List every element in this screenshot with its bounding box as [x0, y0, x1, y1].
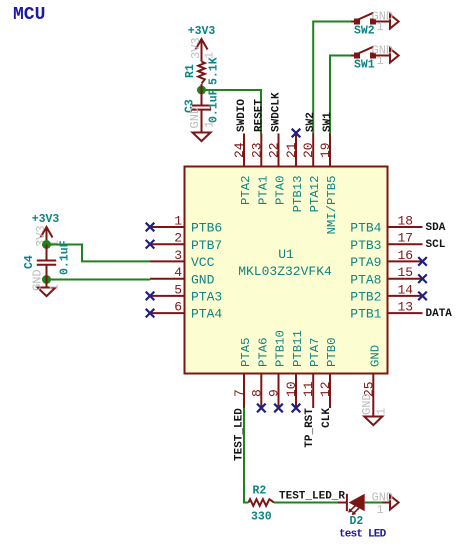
U1 pin 25 (GND): [361, 345, 382, 417]
svg-text:PTB7: PTB7: [191, 238, 222, 253]
svg-text:CLK: CLK: [321, 408, 333, 428]
capacitor C4 0.1uF: [23, 240, 72, 275]
svg-text:PTB3: PTB3: [350, 238, 381, 253]
svg-text:6: 6: [174, 300, 182, 315]
svg-text:SWDIO: SWDIO: [236, 99, 248, 132]
svg-text:PTA9: PTA9: [350, 255, 381, 270]
U1 pin 20 (PTA12): [301, 134, 322, 213]
svg-text:GND: GND: [368, 345, 382, 367]
wire R1 to C3: [201, 84, 203, 105]
svg-text:PTB10: PTB10: [274, 330, 288, 367]
svg-text:SW1: SW1: [322, 112, 334, 132]
svg-text:8: 8: [249, 389, 264, 397]
U1 pin 17 (PTB3): [350, 231, 422, 253]
svg-text:U1: U1: [278, 247, 294, 262]
svg-text:21: 21: [284, 142, 299, 158]
svg-text:13: 13: [398, 300, 414, 315]
ground below C3: [188, 107, 216, 141]
svg-text:11: 11: [301, 381, 316, 397]
svg-text:PTA3: PTA3: [191, 290, 222, 305]
ground at SW2: [372, 9, 399, 34]
capacitor C3 0.1uF: [184, 88, 221, 123]
svg-text:+3V3: +3V3: [188, 25, 216, 38]
U1 pin 12 (PTB0): [318, 337, 339, 408]
U1 pin 3 (VCC): [150, 248, 215, 270]
svg-text:GND: GND: [31, 269, 45, 291]
svg-text:R2: R2: [253, 485, 267, 498]
wire C4 to ground: [46, 265, 48, 288]
wire TEST_LED_R net: [274, 502, 338, 504]
svg-text:PTA4: PTA4: [191, 307, 222, 322]
U1 pin 14 (PTB2): [350, 282, 427, 304]
svg-text:DATA: DATA: [426, 308, 453, 320]
ground below C4: [31, 269, 62, 296]
svg-text:14: 14: [398, 282, 414, 297]
resistor R2 330: [249, 485, 275, 524]
wire LED to ground: [365, 502, 383, 504]
svg-text:PTB1: PTB1: [350, 307, 381, 322]
U1 pin 16 (PTA9): [350, 248, 427, 270]
wire SW2 net stub: [351, 21, 355, 23]
wire GND node to GND pin 4: [47, 279, 151, 281]
ground at SW1: [372, 43, 399, 68]
svg-text:1: 1: [374, 408, 388, 415]
wire C3 to ground: [201, 110, 203, 133]
svg-text:C4: C4: [23, 255, 36, 269]
svg-text:VCC: VCC: [191, 255, 215, 270]
U1 pin 4 (GND): [150, 265, 215, 287]
svg-text:GND: GND: [191, 272, 215, 287]
svg-text:GND: GND: [360, 393, 374, 415]
svg-text:17: 17: [398, 231, 414, 246]
svg-text:22: 22: [267, 142, 282, 158]
svg-text:SWDCLK: SWDCLK: [271, 92, 283, 132]
svg-text:RESET: RESET: [253, 99, 265, 132]
wire SW2 net from pin 20: [313, 22, 351, 134]
svg-text:TEST_LED_R: TEST_LED_R: [279, 491, 345, 503]
svg-text:9: 9: [267, 389, 282, 397]
junction RESET node: [197, 86, 206, 95]
U1 pin 18 (PTB4): [350, 214, 422, 236]
svg-text:PTA8: PTA8: [350, 272, 381, 287]
svg-text:1: 1: [174, 214, 182, 229]
resistor R1 5.1K: [184, 57, 221, 85]
ground at pin 25: [360, 393, 388, 425]
U1 pin 9 (PTB10): [267, 330, 288, 412]
svg-text:NMI/PTB5: NMI/PTB5: [325, 176, 339, 235]
svg-text:GND: GND: [188, 107, 202, 129]
svg-text:23: 23: [249, 142, 264, 158]
svg-text:1: 1: [377, 503, 384, 517]
svg-text:PTB13: PTB13: [291, 176, 305, 213]
op IC body U1: [185, 167, 388, 374]
svg-text:19: 19: [318, 142, 333, 158]
svg-text:20: 20: [301, 142, 316, 158]
svg-text:4: 4: [174, 265, 182, 280]
LED D2: [338, 494, 365, 528]
switch SW1: [354, 47, 376, 72]
svg-text:12: 12: [318, 381, 333, 397]
svg-text:SDA: SDA: [426, 222, 446, 234]
svg-text:PTA1: PTA1: [256, 176, 270, 206]
svg-text:SW2: SW2: [305, 112, 317, 132]
svg-text:test LED: test LED: [339, 529, 387, 541]
U1 pin 11 (PTA7): [301, 337, 322, 408]
svg-text:3V3: 3V3: [189, 37, 203, 59]
svg-text:PTB4: PTB4: [350, 221, 381, 236]
svg-text:1: 1: [48, 284, 62, 291]
U1 pin 21 (PTB13): [284, 129, 305, 213]
svg-text:SW2: SW2: [354, 24, 375, 37]
svg-text:7: 7: [232, 389, 247, 397]
power +3V3 (C4 decoupling): [32, 213, 62, 247]
svg-text:3: 3: [174, 248, 182, 263]
svg-text:PTA2: PTA2: [239, 176, 253, 206]
wire TEST_LED net from pin 7: [244, 408, 249, 503]
svg-text:5.1K: 5.1K: [208, 57, 221, 85]
U1 pin 15 (PTA8): [350, 265, 427, 287]
svg-text:PTB0: PTB0: [325, 337, 339, 367]
power +3V3 (reset pullup): [188, 25, 217, 62]
svg-text:PTB11: PTB11: [291, 330, 305, 367]
svg-text:330: 330: [251, 511, 272, 524]
svg-text:0.1uF: 0.1uF: [59, 240, 72, 275]
svg-text:0.1uF: 0.1uF: [208, 88, 221, 123]
wire SW1 net stub: [351, 55, 355, 57]
svg-text:PTA12: PTA12: [308, 176, 322, 213]
svg-text:PTA6: PTA6: [256, 337, 270, 367]
svg-text:PTA7: PTA7: [308, 337, 322, 367]
U1 pin 24 (PTA2): [232, 134, 253, 206]
U1 pin 5 (PTA3): [146, 282, 223, 304]
U1 pin 22 (PTA0): [267, 134, 288, 206]
svg-text:+3V3: +3V3: [32, 213, 60, 226]
svg-text:SW1: SW1: [354, 58, 375, 71]
wire RESET net to pin 23: [202, 90, 262, 134]
svg-text:24: 24: [232, 142, 247, 158]
svg-text:15: 15: [398, 265, 414, 280]
wire SW1 net from pin 19: [330, 56, 352, 134]
svg-text:D2: D2: [350, 515, 364, 528]
wire SW2 to ground: [376, 21, 390, 23]
svg-text:TP_RST: TP_RST: [304, 408, 316, 448]
svg-text:PTA0: PTA0: [274, 176, 288, 206]
ground at LED: [372, 490, 399, 517]
U1 pin 1 (PTB6): [146, 214, 223, 236]
junction +3V3 node: [42, 240, 51, 249]
svg-text:1: 1: [377, 20, 384, 34]
svg-text:10: 10: [284, 381, 299, 397]
U1 pin 10 (PTB11): [284, 330, 305, 412]
svg-text:1: 1: [203, 121, 217, 128]
svg-text:16: 16: [398, 248, 414, 263]
svg-text:MKL03Z32VFK4: MKL03Z32VFK4: [238, 264, 332, 279]
U1 pin 8 (PTA6): [249, 337, 270, 412]
U1 pin 23 (PTA1): [249, 134, 270, 206]
junction GND node: [42, 275, 51, 284]
svg-text:18: 18: [398, 214, 414, 229]
U1 pin 13 (PTB1): [350, 300, 422, 322]
wire junction to C4: [46, 245, 48, 261]
switch SW2: [354, 13, 376, 38]
U1 pin 7 (PTA5): [232, 337, 253, 408]
svg-text:MCU: MCU: [13, 5, 45, 25]
wire SW1 to ground: [376, 55, 390, 57]
svg-text:R1: R1: [184, 64, 197, 78]
wire +3V3 to VCC pin 3: [47, 245, 151, 262]
svg-text:1: 1: [377, 54, 384, 68]
svg-text:5: 5: [174, 282, 182, 297]
U1 pin 2 (PTB7): [146, 231, 223, 253]
U1 pin 19 (NMI/PTB5): [318, 134, 339, 235]
U1 pin 6 (PTA4): [146, 300, 223, 322]
svg-text:PTB2: PTB2: [350, 290, 381, 305]
svg-text:PTA5: PTA5: [239, 337, 253, 367]
svg-text:2: 2: [174, 231, 182, 246]
svg-text:SCL: SCL: [426, 239, 446, 251]
svg-text:PTB6: PTB6: [191, 221, 222, 236]
